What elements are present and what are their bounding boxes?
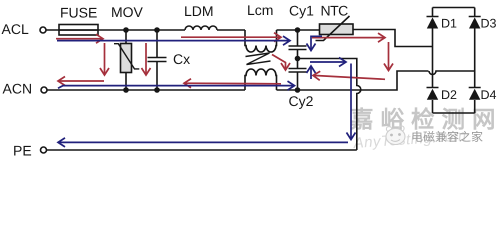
varistor MOV body [121,44,132,73]
red arrow return from bridge [313,75,385,79]
varistor MOV leads [125,30,127,90]
wire ACN right to bridge crossing [277,71,429,90]
wire LDM to Lcm [217,29,245,31]
blue arrow down to PE [350,64,352,140]
diode D3 [469,8,481,88]
svg-text:D1: D1 [441,16,457,30]
svg-text:D2: D2 [441,88,457,102]
wire ACN [48,89,246,91]
diode D1 [427,8,439,88]
fuse element line [59,29,98,31]
diode D2 triangle [427,89,438,100]
red arrow diagonal down beside Cy1 [272,55,286,71]
inductor LDM coil [185,26,217,30]
red arrow down at bridge input [388,42,390,71]
ACL terminal [40,27,46,33]
svg-text:LDM: LDM [184,3,214,19]
red arrow bottom mid return [184,82,281,85]
wire ACL to LDM [47,29,186,31]
diode D4 [469,88,481,114]
choke Lcm top winding [245,30,277,52]
wire Cy midpoint to PE [298,59,361,151]
svg-text:Lcm: Lcm [247,2,273,18]
svg-text:FUSE: FUSE [60,5,97,21]
bridge bottom rail [433,112,475,114]
blue arrow top line to Cy1 [57,40,290,42]
wire hop over bridge left rail [429,71,475,75]
diode D3 triangle [469,17,480,28]
svg-text:Cx: Cx [173,51,190,67]
capacitor Cy1 [289,30,307,59]
choke Lcm core [246,53,271,65]
diode D1 triangle [427,17,438,28]
ACN terminal [41,87,47,93]
red arrow in below ACL [56,38,103,40]
choke Lcm bottom winding [245,69,277,90]
svg-text:Cy2: Cy2 [289,93,314,109]
wire Lcm to NTC [277,29,320,31]
watermark logo [386,126,391,131]
svg-text:NTC: NTC [321,2,349,18]
svg-text:MOV: MOV [111,4,144,20]
blue arrow along PE out [58,141,348,143]
junction dots [123,27,129,33]
wire PE [47,149,357,151]
red arrow down left of Cx [145,43,147,75]
svg-text:D4: D4 [481,88,497,102]
svg-text:PE: PE [13,143,32,159]
fuse F rect [59,25,98,36]
capacitor Cx [148,30,167,90]
diode D2 [427,88,439,114]
varistor MOV diagonal [114,44,139,69]
capacitor Cy2 [289,59,307,91]
red arrow below NTC [312,37,385,39]
diode D4 triangle [469,89,480,100]
blue arrow up through Cy2 [310,66,312,79]
svg-text:Cy1: Cy1 [289,2,314,18]
red arrow return to ACN [58,80,104,82]
red arrow top mid to Cy node [181,36,281,38]
red differential-mode current arrows [56,37,389,84]
blue arrow mid node to PE drop [310,61,346,63]
svg-text:D3: D3 [481,16,497,30]
thermistor NTC body [320,24,354,35]
svg-text:电磁兼容之家: 电磁兼容之家 [411,130,483,144]
svg-text:ACL: ACL [2,21,29,37]
blue arrow bottom line to Cy2 [58,86,295,89]
bridge top rail [433,7,475,9]
svg-text:嘉峪检测网: 嘉峪检测网 [350,107,500,133]
svg-text:ACN: ACN [3,81,33,97]
blue common-mode current arrows [57,36,351,142]
red arrow down left of MOV [104,43,106,75]
blue arrow down through Cy1 [311,36,322,50]
thermistor NTC diagonal [316,16,350,41]
wire NTC to bridge [353,30,433,47]
PE terminal [41,147,47,153]
